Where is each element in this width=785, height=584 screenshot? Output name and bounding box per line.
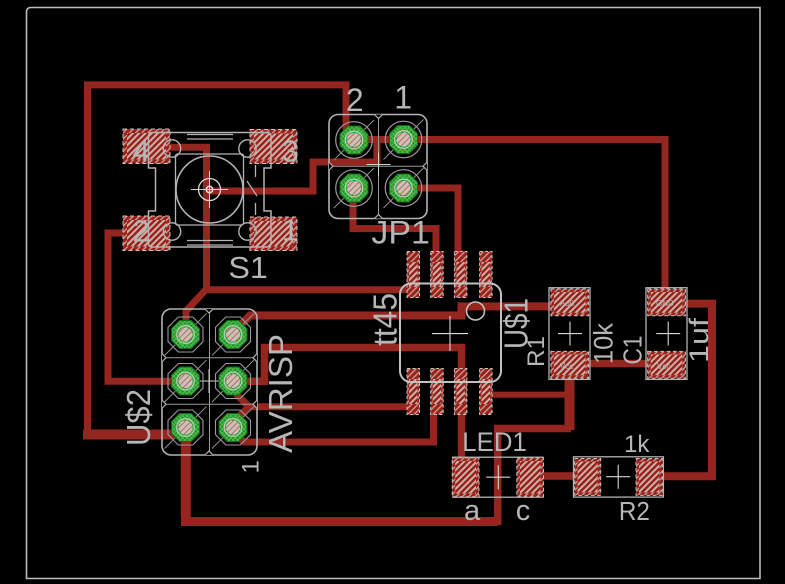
wire U$2 pad4 to tt45 pad3 bottom and LED1 anode [245,348,462,460]
svg-text:JP1: JP1 [371,214,430,250]
pushbutton S1 [123,129,297,251]
svg-text:U$2: U$2 [120,389,157,446]
capacitor C1 [646,288,687,380]
U$2 pad row3 right [212,407,254,449]
U$2 pad row1 left [165,314,207,356]
JP1 pad 4 (bottom-right) [384,168,424,208]
header U$2 (AVRISP) [162,309,257,455]
wire U$2 pad6 to tt45 pad2 bottom [234,410,434,442]
wire power net: branch to tt45 pad4 bottom [486,392,570,398]
wire S1 center diagonal to U$2 pad1 [186,289,207,334]
wire net1: stub into U$2 pad5 [83,430,174,440]
wire power net: U$2 pad6 down, bottom run to LED area [181,430,191,518]
svg-text:Vcc: Vcc [560,362,573,371]
svg-text:2: 2 [346,82,364,118]
wire S1 center to tt45 pad1 top [207,286,414,293]
svg-text:1uf: 1uf [684,317,714,363]
wire JP1 pad4 to tt45 pad3 top [404,188,458,273]
svg-text:R2: R2 [619,498,650,526]
U$2 pad row2 left [165,360,207,402]
wire S1 center to JP1 top row [207,141,378,191]
svg-text:AVRISP: AVRISP [262,334,299,453]
U$2 pad row2 right [212,360,254,402]
svg-text:a: a [464,495,481,527]
svg-text:R1: R1 [523,336,550,367]
wire S1 pad4 through center down [168,147,207,291]
wire JP1 pad3 to tt45 pad2 top [353,190,436,273]
IC U$1 tt45 (SOIC-8) [400,252,501,415]
svg-text:c: c [516,495,531,527]
svg-text:Vcc: Vcc [657,362,670,371]
header JP1 [329,115,427,219]
svg-text:LED1: LED1 [462,427,527,457]
svg-text:tt45: tt45 [367,293,404,346]
svg-text:1: 1 [282,213,299,248]
LED LED1 [452,457,543,497]
wire power net: up through LED1 gap to R1 bottom [498,429,571,526]
svg-text:3: 3 [282,134,299,169]
wire JP1 top row to C1 top (right loop) [341,140,665,297]
JP1 pad 1 (top-right) [384,120,424,160]
wire U$2 pad4/pad6 diagonals to tt45 pad1 bottom [235,394,412,420]
svg-text:1k: 1k [624,431,650,458]
wire C1 top to R2 right (right side loop) [663,304,712,477]
svg-text:4: 4 [133,134,150,169]
svg-text:1: 1 [394,80,412,116]
wire S1 pad2 to U$2 pad3 [108,233,176,381]
JP1 pad 3 (bottom-left) [334,168,374,208]
svg-text:C1: C1 [618,336,648,365]
svg-text:S1: S1 [228,251,268,285]
wire LED1 cathode to R2 left [540,472,578,480]
svg-text:10k: 10k [589,322,619,364]
wire R1 bottom to C1 bottom [586,360,650,368]
U$2 pad row1 right [212,314,254,356]
svg-text:GND: GND [656,299,674,308]
wire net1: JP1 pin2 to U$2 bottom-left loop (left/top) [88,85,347,436]
wire U$2 pad2 to R1 top pad (under tt45) [236,306,553,330]
svg-text:Ad0: Ad0 [560,299,575,308]
svg-text:2: 2 [133,214,150,249]
JP1 pad 2 (top-left) [334,120,374,160]
resistor R1 [549,288,590,380]
resistor R2 [574,457,664,497]
U$2 pad row3 left [165,407,207,449]
svg-text:1: 1 [238,460,265,473]
